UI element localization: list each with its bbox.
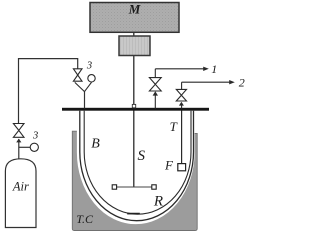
pipe: air line horizontal top [19,58,78,60]
level mark dash at vessel bottom [127,213,140,215]
impeller right paddle [152,185,156,189]
impeller bar R [115,186,155,188]
svg-text:T: T [170,119,178,134]
motor M (hatched box) [90,3,179,33]
gas tube T into vessel [181,111,183,164]
gauge circle at valve 3 [88,75,95,82]
svg-text:1: 1 [211,62,217,76]
air cylinder valve (bowtie) [13,124,24,138]
svg-text:3: 3 [32,131,38,142]
valve 2 (bowtie) [176,89,186,101]
regulator circle 3 [30,143,38,151]
outlet line 2 [182,80,235,84]
valve 3 (gas inlet valve, bowtie) [73,69,82,81]
arrow under valve 1 [153,91,158,95]
vessel B outer wall [80,111,194,221]
svg-text:M: M [128,2,141,17]
thermostat container T.C (gray tub) [72,131,197,230]
arrow under air valve [16,139,21,143]
stirrer shaft S [133,32,135,187]
svg-text:Air: Air [12,179,29,193]
pipe: valve 2 to lid [181,104,183,109]
svg-text:F: F [164,157,174,172]
lid (thick plate) [62,108,209,111]
vessel B inner wall [84,111,191,215]
pipe: stub to valve 3 [77,58,79,69]
pipe: valve to cylinder [18,139,20,160]
pipe: line 1 drop to valve 1 [154,69,156,78]
pipe: valve 1 to lid [154,94,156,109]
branch to regulator circle [19,146,30,148]
svg-text:R: R [153,194,163,210]
svg-text:S: S [137,148,145,164]
air cylinder [5,159,36,228]
arrow under valve 2 [179,102,184,106]
svg-text:2: 2 [239,76,245,90]
impeller left paddle [112,185,116,189]
valve 1 (bowtie) [149,78,161,91]
shaft bearing square on lid [132,104,135,107]
pipe: line 2 drop to valve 2 [181,82,183,89]
Y junction below valve 3 [75,82,92,91]
coupling box [119,36,150,56]
svg-text:T.C: T.C [76,212,94,226]
pipe into lid from valve 3 [84,91,86,108]
white gap between vessel and bath [79,131,193,223]
outlet line 1 [155,67,209,71]
frit F (small square) [178,164,186,171]
pipe: air line left vertical [18,58,20,124]
svg-text:B: B [91,136,100,151]
svg-text:3: 3 [86,60,92,71]
